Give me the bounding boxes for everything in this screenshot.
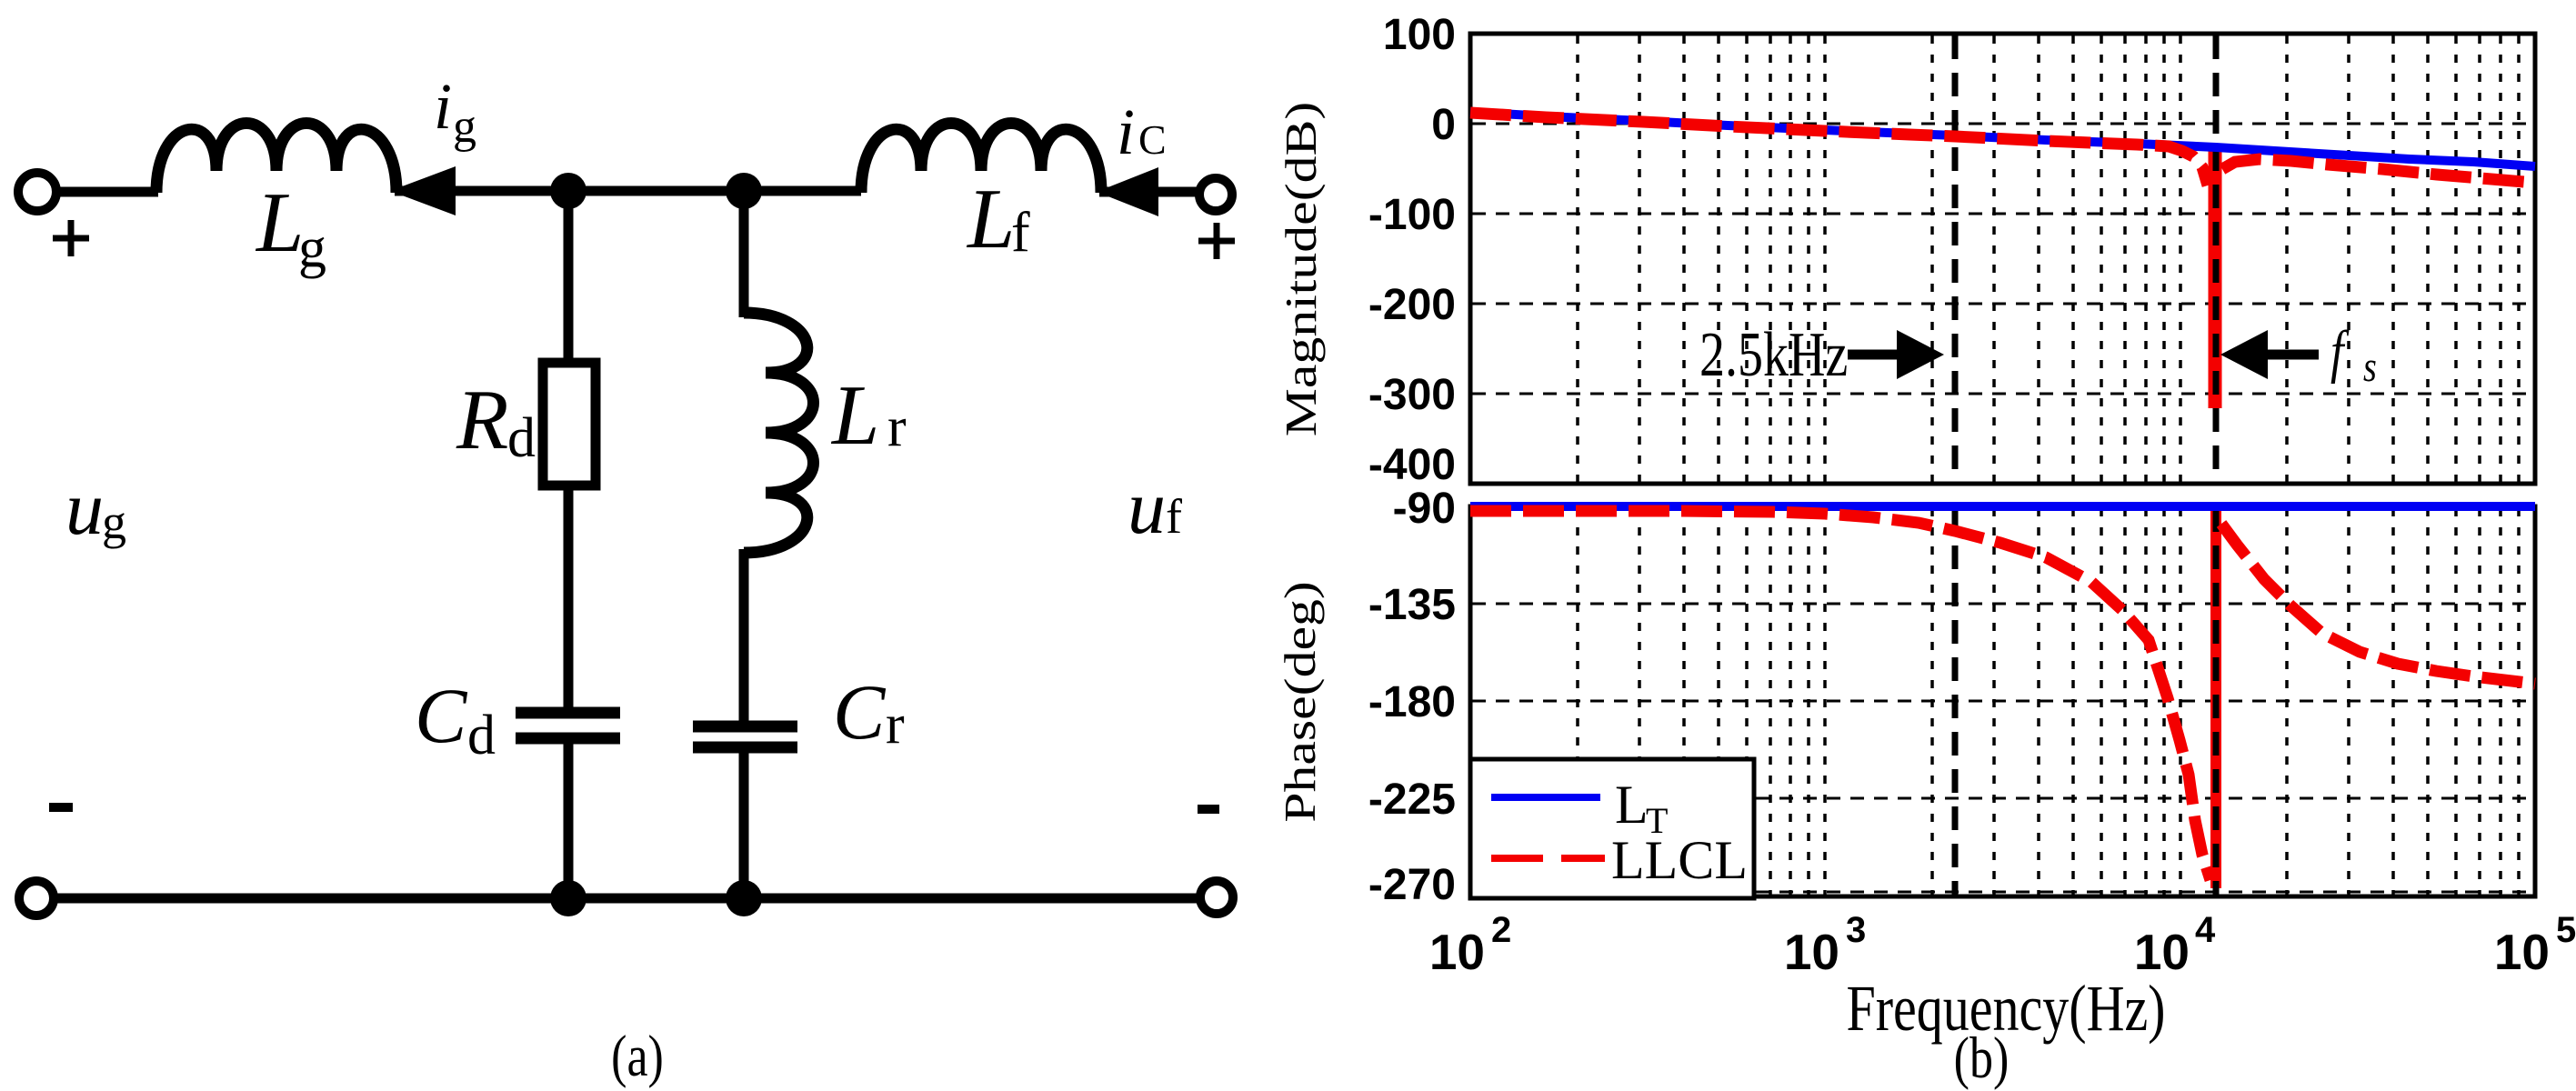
- svg-text:-300: -300: [1368, 371, 1456, 419]
- svg-text:-270: -270: [1368, 861, 1456, 909]
- red resonance vertical line (magnitude notch): [2209, 147, 2222, 408]
- label iC: [1117, 95, 1167, 168]
- svg-text:C: C: [415, 672, 468, 759]
- curve LLCL magnitude (red dashed): [1470, 113, 2535, 185]
- svg-text:-180: -180: [1368, 678, 1456, 726]
- svg-text:-200: -200: [1368, 281, 1456, 329]
- label Cr: [833, 668, 905, 756]
- wire Rd branch upper: [564, 191, 574, 367]
- wire Lr branch upper: [739, 191, 749, 317]
- magnitude vertical minor gridlines (dotted log grid): [1578, 35, 2519, 482]
- wire Lr to Cr: [739, 549, 749, 723]
- minus sign right: [1198, 805, 1219, 814]
- wire Rd to Cd: [564, 485, 574, 709]
- label ig: [434, 70, 476, 153]
- legend entry LLCL: [1491, 830, 1748, 890]
- label Lg: [255, 175, 326, 279]
- svg-text:-400: -400: [1368, 441, 1456, 489]
- wire top-left (T1 to Lg): [59, 187, 158, 197]
- svg-text:L: L: [966, 172, 1015, 266]
- wire top-mid (Lg to Lf): [395, 186, 861, 196]
- svg-text:g: g: [453, 101, 476, 153]
- svg-text:10: 10: [1429, 924, 1485, 980]
- svg-text:f: f: [1011, 202, 1030, 264]
- legend box: [1470, 759, 1754, 898]
- node junction J2 (Lr branch, top): [726, 173, 762, 209]
- svg-text:r: r: [886, 694, 905, 756]
- label Lf: [966, 172, 1030, 266]
- curve LT phase (blue): [1470, 502, 2535, 511]
- svg-text:d: d: [467, 705, 496, 766]
- svg-text:g: g: [102, 495, 126, 549]
- svg-text:f: f: [1166, 489, 1182, 544]
- svg-text:5: 5: [2556, 910, 2576, 950]
- capacitor Cr: [693, 726, 797, 747]
- svg-text:-225: -225: [1368, 776, 1456, 824]
- svg-text:LLCL: LLCL: [1611, 830, 1748, 890]
- legend entry LT: [1491, 775, 1668, 841]
- svg-text:L: L: [1615, 775, 1649, 835]
- resistor Rd: [543, 363, 596, 485]
- dashed marker line 2.5kHz: [1952, 35, 1959, 895]
- svg-text:s: s: [2363, 344, 2377, 391]
- svg-text:10: 10: [1784, 924, 1839, 980]
- svg-text:i: i: [434, 70, 452, 143]
- svg-text:C: C: [833, 668, 887, 756]
- terminal T3 top-right: [1199, 178, 1232, 211]
- svg-text:f: f: [2330, 319, 2350, 385]
- label Lr: [830, 368, 907, 463]
- svg-text:2: 2: [1491, 910, 1511, 950]
- caption (a): [611, 1024, 664, 1089]
- label uf (filter voltage): [1128, 465, 1182, 550]
- svg-text:3: 3: [1846, 910, 1866, 950]
- x tick labels: [1429, 910, 2576, 980]
- svg-text:-100: -100: [1368, 191, 1456, 239]
- plus sign right: [1198, 223, 1235, 259]
- annotation 2.5kHz with arrow: [1699, 319, 1944, 389]
- wire Cr to bottom: [739, 747, 749, 898]
- phase vertical minor gridlines (dotted log grid): [1578, 508, 2519, 895]
- svg-text:i: i: [1117, 95, 1135, 168]
- magnitude horizontal gridlines: [1472, 124, 2533, 394]
- svg-text:2.5kHz: 2.5kHz: [1699, 319, 1848, 389]
- wire top-right (Lf to T3): [1099, 187, 1197, 197]
- svg-text:10: 10: [2494, 924, 2550, 980]
- inductor Lr: [744, 313, 814, 553]
- y axis title Phase(deg): [1275, 581, 1325, 823]
- svg-text:4: 4: [2195, 910, 2216, 950]
- terminal T1 top-left: [18, 173, 56, 211]
- inductor Lf: [861, 124, 1101, 194]
- svg-text:(a): (a): [611, 1024, 664, 1089]
- annotation fs with arrow: [2220, 319, 2377, 391]
- label Cd: [415, 672, 496, 766]
- svg-text:R: R: [456, 373, 508, 467]
- svg-text:g: g: [298, 217, 326, 279]
- magnitude y tick labels: [1368, 11, 1456, 489]
- node junction J4 (Cr branch, bottom): [726, 880, 762, 916]
- arrow ig (current direction): [390, 166, 456, 215]
- svg-text:u: u: [1128, 465, 1166, 550]
- terminal T4 bottom-right: [1200, 881, 1233, 914]
- plus sign left: [53, 220, 89, 256]
- y axis title Magnitude(dB): [1276, 102, 1326, 436]
- svg-text:r: r: [887, 396, 907, 458]
- red resonance vertical line (phase jump): [2210, 509, 2221, 888]
- label ug (grid voltage): [65, 466, 126, 551]
- curve LT magnitude (blue): [1470, 112, 2535, 166]
- svg-text:u: u: [65, 466, 104, 551]
- caption (b): [1954, 1026, 2010, 1091]
- terminal T2 bottom-left: [19, 881, 54, 916]
- phase horizontal gridlines: [1472, 604, 2533, 892]
- svg-text:100: 100: [1383, 11, 1456, 59]
- svg-text:L: L: [255, 175, 304, 270]
- node junction J3 (Cd branch, bottom): [550, 880, 586, 916]
- svg-text:L: L: [830, 368, 879, 463]
- svg-text:C: C: [1138, 116, 1167, 163]
- curve LLCL phase (red dashed): [1470, 511, 2535, 880]
- svg-text:-90: -90: [1393, 485, 1456, 533]
- svg-text:d: d: [507, 407, 536, 469]
- svg-text:Phase(deg): Phase(deg): [1275, 581, 1325, 823]
- dashed marker line fs: [2213, 35, 2220, 895]
- node junction J1 (Rd branch, top): [550, 173, 586, 209]
- magnitude axes box: [1470, 34, 2535, 484]
- svg-text:Magnitude(dB): Magnitude(dB): [1276, 102, 1326, 436]
- phase y tick labels: [1368, 485, 1456, 909]
- phase axes box: [1470, 506, 2535, 896]
- capacitor Cd: [516, 713, 620, 738]
- label Rd: [456, 373, 536, 469]
- x axis title Frequency(Hz): [1846, 972, 2165, 1046]
- svg-text:-135: -135: [1368, 581, 1456, 629]
- wire bottom rail: [56, 894, 1198, 904]
- wire Cd to bottom: [564, 738, 574, 898]
- minus sign left: [49, 803, 73, 812]
- svg-text:(b): (b): [1954, 1026, 2010, 1091]
- inductor Lg: [156, 124, 396, 194]
- svg-text:0: 0: [1431, 101, 1456, 149]
- arrow iC (current direction): [1097, 167, 1158, 216]
